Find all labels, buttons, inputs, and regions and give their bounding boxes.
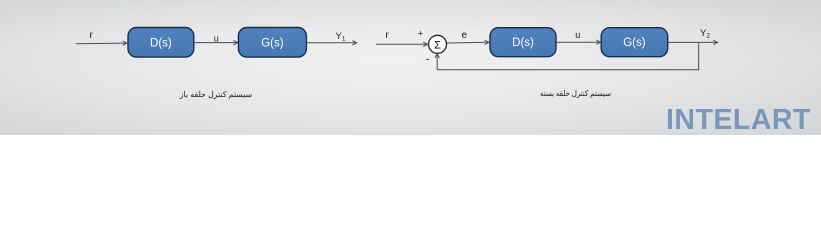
svg-text:r: r xyxy=(90,30,94,41)
svg-text:سیستم کنترل حلقه باز: سیستم کنترل حلقه باز xyxy=(179,90,253,99)
wire: input r to summer (closed-loop) xyxy=(376,42,427,46)
block D2 D(s) (closed-loop controller) xyxy=(490,28,556,57)
block G1 G(s) (open-loop plant) xyxy=(238,28,306,58)
summing junction U1 (Sigma) xyxy=(429,35,447,53)
wire: feedback path from output to summer xyxy=(435,42,699,69)
svg-text:D(s): D(s) xyxy=(512,37,534,49)
svg-text:u: u xyxy=(575,30,580,40)
svg-text:u: u xyxy=(214,33,219,43)
wire: output Y2 (closed-loop) xyxy=(668,40,718,44)
block D1 D(s) (open-loop controller) xyxy=(128,28,194,58)
svg-text:e: e xyxy=(462,30,468,41)
svg-text:G(s): G(s) xyxy=(623,37,646,49)
wire: output Y1 (open-loop) xyxy=(306,41,356,45)
svg-text:D(s): D(s) xyxy=(150,37,172,49)
wire: input r to D(s) (open-loop) xyxy=(76,41,127,45)
wire: u from D(s) to G(s) (closed-loop) xyxy=(556,40,601,44)
svg-text:Σ: Σ xyxy=(434,39,441,51)
svg-text:r: r xyxy=(386,30,390,41)
wire: u from D(s) to G(s) (open-loop) xyxy=(194,40,238,44)
wire: e from summer to D(s) (closed-loop) xyxy=(447,40,489,44)
svg-text:-: - xyxy=(426,53,430,65)
svg-text:Y2: Y2 xyxy=(700,28,710,40)
svg-text:G(s): G(s) xyxy=(261,37,284,49)
svg-text:Y1: Y1 xyxy=(336,31,346,43)
svg-text:INTELART: INTELART xyxy=(666,104,811,135)
svg-text:سیستم کنترل حلقه بسته: سیستم کنترل حلقه بسته xyxy=(540,89,611,98)
block G2 G(s) (closed-loop plant) xyxy=(601,28,668,57)
svg-text:+: + xyxy=(418,29,424,40)
